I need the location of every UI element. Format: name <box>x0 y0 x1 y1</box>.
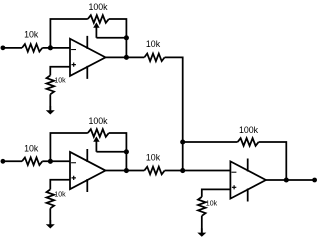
svg-text:10k: 10k <box>24 30 39 40</box>
input terminal IN1 <box>1 45 6 50</box>
wire P2 wiper to feedback line <box>96 151 126 153</box>
wire U3 output to OUT terminal <box>266 179 315 181</box>
svg-text:10k: 10k <box>146 39 161 49</box>
ground (stage 2) <box>46 220 55 229</box>
junction U1 output <box>124 55 129 60</box>
resistor R1 10k (input, stage 1) <box>22 44 42 52</box>
potentiometer P2 100k (stage 2 feedback) <box>88 129 109 137</box>
resistor R2 10k (U1 + to ground) <box>47 75 55 94</box>
wire R2 to ground <box>49 94 51 110</box>
op-amp U3 <box>230 159 266 202</box>
op-amp U1 <box>70 36 106 79</box>
P1 wiper arrow <box>93 22 99 37</box>
wire U2 non-inverting input to R5 <box>50 180 70 190</box>
wire U2 output to R6 <box>106 170 145 172</box>
svg-text:100k: 100k <box>88 2 108 12</box>
junction node B <box>48 159 53 164</box>
potentiometer P1 100k (stage 1 feedback) <box>88 15 109 23</box>
resistor R4 10k (input, stage 2) <box>22 158 42 166</box>
wire IN1 to R1 <box>3 47 22 49</box>
wire R4 to U2 inverting input, node B <box>42 160 70 162</box>
junction node A <box>48 45 53 50</box>
ground (stage 1) <box>46 106 55 115</box>
input terminal IN2 <box>1 159 6 164</box>
resistor R8 10k (U3 + to ground) <box>198 197 206 216</box>
wire P1 wiper to feedback line <box>96 37 126 39</box>
resistor R3 10k (stage 1 summing) <box>144 54 164 62</box>
junction U2 output <box>124 168 129 173</box>
svg-text:100k: 100k <box>239 125 259 135</box>
wire U3 non-inverting input to R8 <box>202 189 231 197</box>
svg-text:10k: 10k <box>24 144 39 154</box>
wire node A up to P1 left terminal <box>50 19 87 48</box>
svg-text:10k: 10k <box>54 192 66 199</box>
wire IN2 to R4 <box>3 160 22 162</box>
wire P1 right terminal down to U1 output <box>109 19 127 57</box>
wire R7 down to U3 output <box>259 142 287 180</box>
junction P2 wiper / feedback <box>124 149 129 154</box>
wire U1 output to R3 <box>106 56 145 58</box>
op-amp U2 <box>70 149 106 192</box>
svg-text:10k: 10k <box>146 152 161 162</box>
wire R6 to summing node / U3 inverting input <box>165 170 231 172</box>
svg-text:100k: 100k <box>88 116 108 126</box>
wire U1 non-inverting input to R2 <box>50 67 70 76</box>
svg-text:10k: 10k <box>54 78 66 85</box>
output terminal OUT <box>312 178 317 183</box>
junction U3 output <box>284 177 289 182</box>
wire node B up to P2 left terminal <box>50 133 87 161</box>
resistor R5 10k (U2 + to ground) <box>47 189 55 208</box>
junction summing node (R6 join) <box>180 168 185 173</box>
wire summing node to R7 feedback <box>183 141 238 143</box>
wire R3 to summing node <box>165 57 183 170</box>
wire R1 to U1 inverting input, node A <box>42 47 70 49</box>
wire P2 right terminal down to U2 output <box>109 133 127 171</box>
junction summing node (feedback tap) <box>180 139 185 144</box>
ground (stage 3) <box>197 228 206 237</box>
junction P1 wiper / feedback <box>124 35 129 40</box>
svg-text:10k: 10k <box>206 201 218 208</box>
P2 wiper arrow <box>93 136 99 151</box>
wire R8 to ground <box>201 216 203 233</box>
resistor R7 100k (U3 feedback) <box>238 138 259 146</box>
resistor R6 10k (stage 2 summing) <box>144 167 164 175</box>
wire R5 to ground <box>49 208 51 224</box>
